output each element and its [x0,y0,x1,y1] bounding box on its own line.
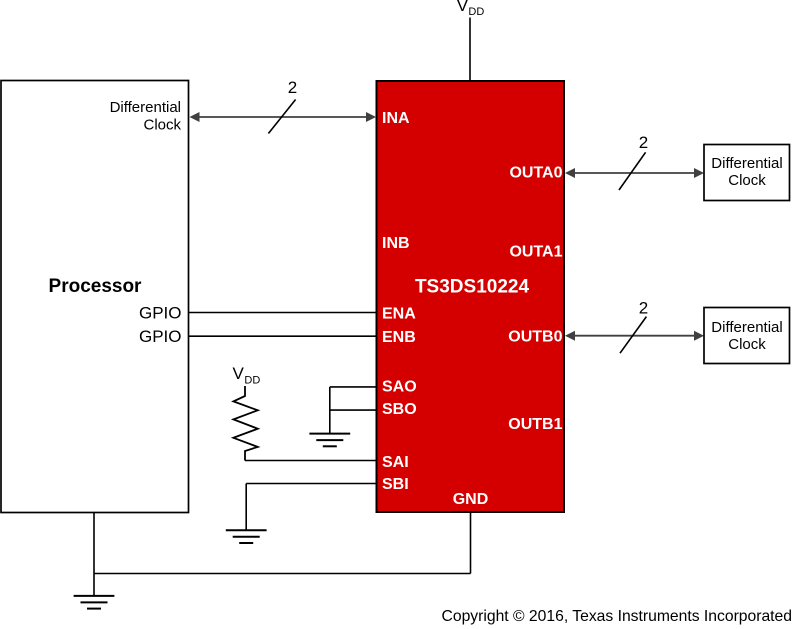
svg-text:Clock: Clock [143,117,181,134]
power VDD (top) label [457,0,485,18]
svg-text:2: 2 [639,133,648,152]
svg-text:OUTB1: OUTB1 [508,416,562,433]
bus arrow OUTB0 to Differential Clock box [565,331,704,341]
chip TS3DS10224 [377,81,565,512]
svg-text:Clock: Clock [728,172,766,189]
svg-text:OUTB0: OUTB0 [508,328,562,345]
svg-text:2: 2 [639,299,648,318]
wire SAO/SBO to ground [329,387,331,434]
svg-text:Copyright © 2016, Texas Instru: Copyright © 2016, Texas Instruments Inco… [442,608,792,625]
wire ENA [189,312,377,314]
bus slash (INA) [268,100,295,134]
ground (SAO/SBO) [309,434,350,447]
svg-text:2: 2 [288,78,297,97]
svg-text:V: V [457,0,469,15]
svg-text:Clock: Clock [728,336,766,353]
svg-text:GPIO: GPIO [139,327,182,346]
svg-text:SAI: SAI [382,454,409,471]
svg-text:V: V [233,364,245,383]
bus arrow Differential Clock to INA [190,112,377,122]
svg-text:SAO: SAO [382,378,417,395]
svg-text:INB: INB [382,235,410,252]
wire processor bottom to ground [93,513,95,596]
svg-text:GPIO: GPIO [139,303,182,322]
bus slash (OUTA0) [619,152,646,190]
wire ENB [189,335,377,337]
svg-text:DD: DD [244,375,260,387]
bus arrow OUTA0 to Differential Clock box [565,168,704,178]
wire GND horizontal [94,573,471,575]
processor block [1,81,189,513]
svg-text:OUTA1: OUTA1 [509,244,562,261]
resistor pull-up on SAI [233,386,257,461]
svg-text:Processor: Processor [49,276,143,297]
bus slash (OUTB0) [620,317,646,354]
wire SAI [245,460,377,462]
ground (main) [74,596,115,609]
svg-text:INA: INA [382,110,410,127]
svg-text:ENB: ENB [382,329,416,346]
svg-text:ENA: ENA [382,305,416,322]
wire SAO [330,386,377,388]
svg-text:OUTA0: OUTA0 [509,165,562,182]
differential clock box A [704,145,790,201]
svg-text:GND: GND [453,491,489,508]
wire SBO [330,409,377,411]
power VDD (resistor) label [233,364,261,386]
svg-text:DD: DD [468,6,484,18]
svg-text:SBI: SBI [382,476,409,493]
ground (SBI) [226,530,267,543]
wire SBI to ground [245,484,247,531]
wire VDD to chip top [469,18,471,82]
svg-text:Differential: Differential [711,319,782,336]
svg-text:SBO: SBO [382,401,417,418]
node Differential Clock (processor side) [110,99,182,134]
wire GND pin down [470,513,472,574]
svg-text:Differential: Differential [711,155,782,172]
differential clock box B [704,308,790,364]
svg-text:TS3DS10224: TS3DS10224 [415,276,530,297]
wire SBI [246,483,376,485]
svg-text:Differential: Differential [110,99,181,116]
